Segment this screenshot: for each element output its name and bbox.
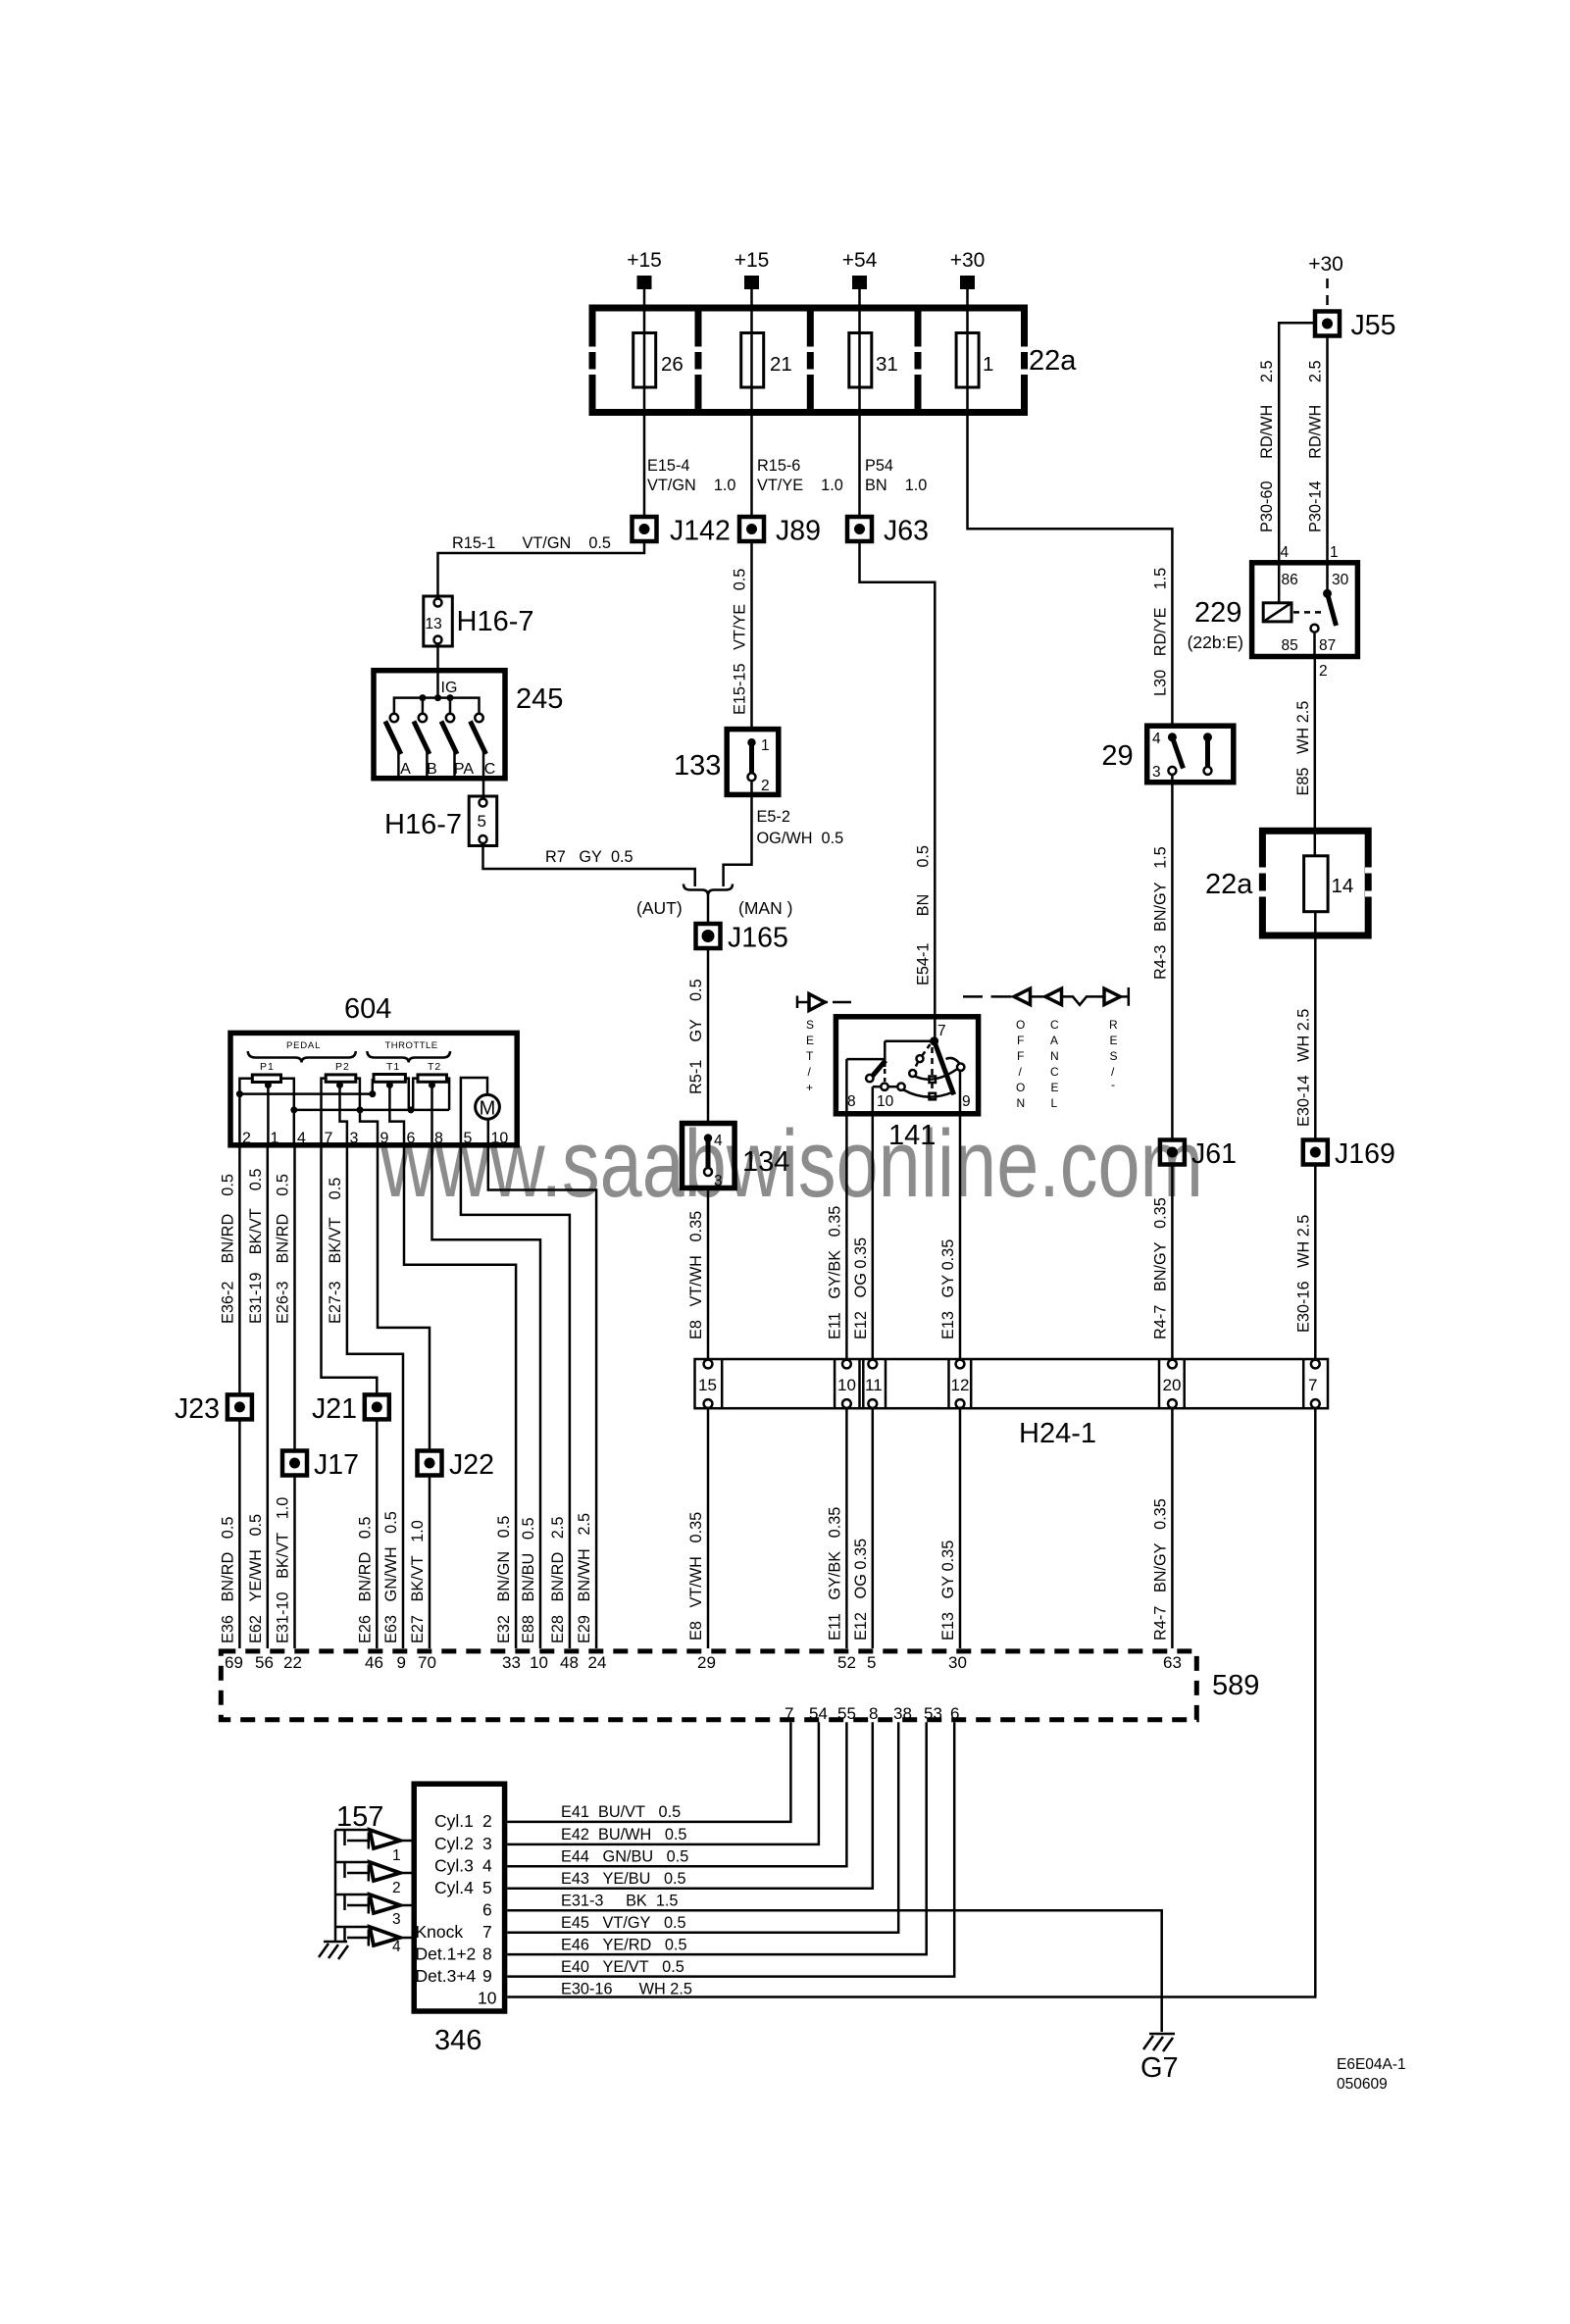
svg-text:10: 10 <box>530 1653 548 1672</box>
svg-text:E85 WH 2.5: E85 WH 2.5 <box>1294 701 1312 796</box>
svg-text:5: 5 <box>478 812 486 831</box>
wire E31-10 BK/VT 1.0 (J17 to 589 pin 22) <box>293 1478 296 1649</box>
svg-text:IG: IG <box>441 680 458 696</box>
svg-text:VT/YE 1.0: VT/YE 1.0 <box>757 477 843 494</box>
svg-text:E26 BN/RD 0.5: E26 BN/RD 0.5 <box>356 1517 374 1643</box>
bus 1 inside 604 <box>239 1092 374 1095</box>
ground G7 <box>1140 2034 1179 2084</box>
wire E27 BK/VT 1.0 (J22 to 589 pin 70) <box>429 1478 431 1649</box>
switch contact PA <box>446 714 454 722</box>
svg-text:+30: +30 <box>950 249 986 272</box>
connector J55 <box>1315 310 1395 341</box>
svg-text:J165: J165 <box>728 923 788 954</box>
svg-text:21: 21 <box>770 353 792 376</box>
wire E30-14 WH 2.5 from fuse 14 to J169 <box>1314 912 1317 1138</box>
svg-text:M: M <box>480 1098 496 1120</box>
connector J17 <box>282 1449 359 1481</box>
connector J63 <box>847 516 929 547</box>
fuse box 22a (top) <box>586 308 1077 413</box>
svg-text:BN 1.0: BN 1.0 <box>865 477 927 494</box>
svg-text:J23: J23 <box>175 1393 220 1425</box>
potentiometer T2 <box>418 1075 447 1082</box>
svg-text:3: 3 <box>392 1911 401 1928</box>
svg-text:E63 GN/WH 0.5: E63 GN/WH 0.5 <box>382 1511 400 1643</box>
svg-text:E62 YE/WH 0.5: E62 YE/WH 0.5 <box>247 1514 265 1643</box>
svg-text:PA: PA <box>454 761 474 778</box>
svg-text:J21: J21 <box>312 1393 357 1425</box>
svg-text:63: 63 <box>1163 1653 1182 1672</box>
svg-text:G7: G7 <box>1140 2052 1179 2084</box>
ignition module 346 <box>414 1784 504 2056</box>
svg-text:9: 9 <box>962 1093 971 1110</box>
svg-text:69: 69 <box>225 1653 243 1672</box>
svg-text:4: 4 <box>482 1856 492 1876</box>
svg-text:+54: +54 <box>842 249 878 272</box>
wire 589 pin 7 to 346 Cyl.1 <box>507 1722 790 1822</box>
svg-text:L: L <box>1051 1096 1058 1110</box>
svg-text:+: + <box>806 1081 813 1094</box>
svg-text:7: 7 <box>482 1922 492 1942</box>
wire P30-60 RD/WH 2.5 from J55 to relay 229 pin 4 <box>1279 323 1313 603</box>
svg-text:(AUT): (AUT) <box>636 898 683 918</box>
svg-text:+15: +15 <box>734 249 770 272</box>
svg-text:E5-2: E5-2 <box>757 808 790 826</box>
svg-text:E15-4: E15-4 <box>647 457 689 475</box>
svg-text:56: 56 <box>255 1653 274 1672</box>
svg-text:J55: J55 <box>1351 310 1396 341</box>
svg-text:9: 9 <box>397 1653 406 1672</box>
motor M <box>476 1094 500 1119</box>
wire +30 through fuse 1 to switch 29 <box>968 289 1173 726</box>
svg-text:85: 85 <box>1282 637 1298 654</box>
svg-text:141: 141 <box>888 1120 936 1151</box>
dashed actuator fan <box>931 1047 934 1075</box>
svg-text:E15-15 VT/YE 0.5: E15-15 VT/YE 0.5 <box>732 569 749 715</box>
svg-text:86: 86 <box>1282 572 1298 588</box>
svg-text:52: 52 <box>837 1653 856 1672</box>
svg-text:5: 5 <box>464 1131 473 1147</box>
wire E11 GY/BK 0.35 to 589 pin 52 <box>845 1408 848 1648</box>
pin 7 node <box>930 1036 938 1045</box>
svg-text:P2: P2 <box>335 1061 350 1073</box>
svg-text:R15-6: R15-6 <box>757 457 800 475</box>
svg-text:9: 9 <box>482 1966 492 1986</box>
connector J142 <box>633 516 731 547</box>
svg-text:8: 8 <box>847 1093 856 1110</box>
svg-text:22a: 22a <box>1205 869 1253 900</box>
svg-text:E31-3 BK 1.5: E31-3 BK 1.5 <box>561 1893 678 1910</box>
svg-text:A: A <box>400 761 411 778</box>
svg-text:6: 6 <box>950 1704 959 1723</box>
wire E30-16 WH 2.5 from J169 to H24-1 pin 7 <box>1314 1167 1317 1365</box>
svg-text:2: 2 <box>242 1131 251 1147</box>
svg-text:2: 2 <box>392 1880 401 1896</box>
fuse 31 <box>849 333 872 388</box>
svg-text:H24-1: H24-1 <box>1019 1418 1096 1449</box>
wire E85 WH 2.5 from relay pin 87 to fuse 14 <box>1314 659 1317 856</box>
wire E13 GY 0.35 from 141 pin 9 to H24-1 pin 12 <box>959 1071 962 1364</box>
svg-text:E88 BN/BU 0.5: E88 BN/BU 0.5 <box>520 1517 537 1643</box>
potentiometer T1 <box>374 1075 405 1083</box>
svg-text:PEDAL: PEDAL <box>286 1040 321 1051</box>
svg-text:9: 9 <box>380 1131 389 1147</box>
wire E31-3 BK 1.5 (346 pin 6 to ground G7) <box>507 1910 1161 2032</box>
svg-text:www.saabwisonline.com: www.saabwisonline.com <box>380 1110 1203 1217</box>
svg-text:C: C <box>1050 1065 1059 1079</box>
svg-text:J169: J169 <box>1335 1138 1395 1170</box>
ignition coils 157 <box>319 1801 412 1959</box>
svg-text:20: 20 <box>1163 1376 1182 1394</box>
svg-text:10: 10 <box>877 1093 894 1110</box>
svg-text:24: 24 <box>588 1653 607 1672</box>
svg-text:22a: 22a <box>1029 345 1077 377</box>
svg-text:346: 346 <box>434 2025 481 2056</box>
svg-text:87: 87 <box>1319 637 1336 654</box>
svg-text:38: 38 <box>893 1704 912 1723</box>
svg-text:E8 VT/WH 0.35: E8 VT/WH 0.35 <box>687 1211 705 1339</box>
svg-text:F: F <box>1017 1034 1024 1047</box>
svg-text:2: 2 <box>1319 663 1328 680</box>
wire E30-16 WH 2.5 from H24-1 pin 7 to 346 pin 10 <box>507 1408 1315 1997</box>
fuse 14 <box>1304 856 1329 912</box>
svg-text:E54-1 BN 0.5: E54-1 BN 0.5 <box>914 845 932 985</box>
svg-text:(22b:E): (22b:E) <box>1188 632 1243 652</box>
svg-text:133: 133 <box>674 750 721 782</box>
svg-text:8: 8 <box>434 1131 443 1147</box>
SET/+ vertical label <box>806 1018 814 1094</box>
switch contact C <box>475 714 482 722</box>
switch 133 <box>674 730 779 795</box>
svg-text:H16-7: H16-7 <box>457 606 534 637</box>
svg-text:6: 6 <box>482 1900 492 1920</box>
svg-text:14: 14 <box>1332 875 1354 897</box>
svg-text:10: 10 <box>837 1376 856 1394</box>
svg-text:E: E <box>1110 1034 1118 1047</box>
svg-text:Det.3+4: Det.3+4 <box>416 1966 477 1986</box>
potentiometer P1 <box>252 1075 280 1083</box>
wire E26 BN/RD 0.5 (J21 to 589 pin 46) <box>376 1421 379 1648</box>
svg-text:E31-10 BK/VT 1.0: E31-10 BK/VT 1.0 <box>275 1497 292 1643</box>
relay coil <box>1263 603 1291 622</box>
svg-text:R: R <box>1109 1018 1118 1032</box>
svg-text:Knock: Knock <box>416 1922 464 1942</box>
svg-text:E44 GN/BU 0.5: E44 GN/BU 0.5 <box>561 1848 688 1866</box>
svg-text:E31-19 BK/VT 0.5: E31-19 BK/VT 0.5 <box>247 1169 265 1324</box>
svg-text:THROTTLE: THROTTLE <box>385 1040 438 1051</box>
svg-text:T2: T2 <box>428 1061 441 1073</box>
svg-text:T: T <box>806 1049 814 1063</box>
svg-text:13: 13 <box>426 616 442 632</box>
svg-text:134: 134 <box>742 1146 789 1178</box>
fuse 26 <box>633 333 656 388</box>
svg-text:8: 8 <box>869 1704 878 1723</box>
svg-text:J142: J142 <box>670 516 731 547</box>
ground (157) <box>319 1942 348 1959</box>
svg-text:1: 1 <box>1330 544 1339 561</box>
svg-text:P54: P54 <box>865 457 893 475</box>
svg-text:R4-7 BN/GY 0.35: R4-7 BN/GY 0.35 <box>1151 1197 1169 1339</box>
wire R4-7 BN/GY 0.35 to 589 pin 63 <box>1171 1408 1174 1648</box>
wire 604 pin 6 to 589 pin 33 <box>404 1145 516 1648</box>
CANCEL vertical label <box>1050 1018 1059 1110</box>
svg-text:P30-60 RD/WH 2.5: P30-60 RD/WH 2.5 <box>1258 360 1276 532</box>
svg-text:10: 10 <box>491 1131 509 1147</box>
wire 604 pin 7 to J21 <box>322 1145 378 1392</box>
wire E13 GY 0.35 to 589 pin 30 <box>959 1408 962 1648</box>
svg-text:E36 BN/RD 0.5: E36 BN/RD 0.5 <box>219 1517 236 1643</box>
wire to J165 <box>707 895 710 922</box>
svg-text:J61: J61 <box>1191 1138 1237 1170</box>
connector H16-7 pin 13 <box>424 596 534 646</box>
pin 10 contacts <box>897 1084 904 1090</box>
wire 589 pin 54 to 346 Cyl.2 <box>507 1722 819 1844</box>
svg-text:4: 4 <box>1152 731 1161 747</box>
svg-text:S: S <box>1110 1049 1118 1063</box>
terminal +15 (fuse 26) <box>637 276 652 289</box>
svg-text:E45 VT/GY 0.5: E45 VT/GY 0.5 <box>561 1914 686 1932</box>
ignition switch 245 <box>374 671 563 779</box>
selector blade <box>935 1041 954 1095</box>
accelerator pedal sensor 604 <box>230 993 517 1147</box>
svg-text:E8 VT/WH 0.35: E8 VT/WH 0.35 <box>687 1512 705 1641</box>
svg-text:R4-7 BN/GY 0.35: R4-7 BN/GY 0.35 <box>1151 1498 1169 1641</box>
svg-text:1: 1 <box>761 737 770 754</box>
svg-text:N: N <box>1050 1049 1059 1063</box>
svg-text:O: O <box>1016 1018 1025 1032</box>
svg-text:Det.1+2: Det.1+2 <box>416 1945 477 1964</box>
svg-text:3: 3 <box>350 1131 359 1147</box>
terminal +30 <box>960 276 975 289</box>
svg-text:229: 229 <box>1194 597 1241 629</box>
svg-text:245: 245 <box>516 683 563 715</box>
svg-text:O: O <box>1016 1081 1025 1094</box>
wire E31-19 BK/VT 0.5 (604 pin 1) <box>267 1145 270 1648</box>
wire +15 to J142 through fuse 26 <box>643 289 646 515</box>
svg-text:E13 GY 0.35: E13 GY 0.35 <box>939 1541 957 1641</box>
brace throttle <box>367 1051 450 1063</box>
svg-text:R15-1 VT/GN 0.5: R15-1 VT/GN 0.5 <box>452 534 611 552</box>
svg-text:H16-7: H16-7 <box>384 809 462 840</box>
svg-text:B: B <box>427 761 437 778</box>
svg-text:050609: 050609 <box>1337 2076 1388 2093</box>
svg-text:157: 157 <box>336 1801 383 1833</box>
svg-text:P30-14 RD/WH 2.5: P30-14 RD/WH 2.5 <box>1307 360 1325 532</box>
coil symbol 1 <box>335 1830 412 1864</box>
wire 589 pin 55 to 346 Cyl.3 <box>507 1722 846 1866</box>
svg-text:E46 YE/RD 0.5: E46 YE/RD 0.5 <box>561 1937 687 1954</box>
svg-text:+15: +15 <box>627 249 662 272</box>
svg-text:R4-3 BN/GY 1.5: R4-3 BN/GY 1.5 <box>1151 846 1169 980</box>
svg-text:10: 10 <box>478 1989 497 2008</box>
svg-text:3: 3 <box>1152 764 1161 781</box>
svg-text:E29 BN/WH 2.5: E29 BN/WH 2.5 <box>576 1513 593 1643</box>
svg-text:P1: P1 <box>260 1061 275 1073</box>
svg-text:2: 2 <box>761 778 770 794</box>
svg-text:J63: J63 <box>884 516 929 547</box>
wire 245 C to H16-7 pin 5 <box>482 779 485 796</box>
wire 604 pin 8 to 589 pin 10 <box>432 1145 541 1648</box>
coil symbol 2 <box>335 1862 412 1896</box>
svg-text:11: 11 <box>865 1376 883 1394</box>
terminal +54 <box>852 276 867 289</box>
wire 604 pin 5 to 589 pin 48 <box>461 1145 570 1648</box>
svg-text:7: 7 <box>937 1023 946 1039</box>
wire E36-2 BN/RD 0.5 (604 pin 2 to J23) <box>238 1145 241 1392</box>
wire E12 OG 0.35 to 589 pin 5 <box>872 1408 875 1648</box>
pin 9 tap <box>360 1110 378 1145</box>
svg-text:70: 70 <box>418 1653 436 1672</box>
svg-text:VT/GN 1.0: VT/GN 1.0 <box>647 477 735 494</box>
svg-text:Cyl.4: Cyl.4 <box>434 1878 474 1897</box>
svg-text:55: 55 <box>837 1704 856 1723</box>
svg-text:5: 5 <box>867 1653 876 1672</box>
switch contact A <box>390 714 398 722</box>
wire E8 VT/WH 0.35 from 134 to H24-1 pin 15 <box>707 1187 710 1364</box>
connector J23 <box>175 1393 252 1425</box>
cruise control switch 141 <box>836 1017 978 1151</box>
svg-text:E30-16 WH 2.5: E30-16 WH 2.5 <box>561 1981 692 1998</box>
wire R7 GY 0.5 <box>483 846 695 887</box>
wire E8 VT/WH 0.35 from H24-1 to 589 pin 29 <box>707 1408 710 1648</box>
svg-text:E13 GY 0.35: E13 GY 0.35 <box>939 1239 957 1339</box>
wire E12 OG 0.35 from 141 pin 10 to H24-1 pin 11 <box>872 1086 875 1364</box>
svg-text:E30-14 WH 2.5: E30-14 WH 2.5 <box>1294 1009 1312 1127</box>
wire 589 pin 53 to 346 pin 8 <box>507 1722 926 1954</box>
connector J169 <box>1303 1138 1395 1170</box>
svg-text:J17: J17 <box>314 1449 359 1481</box>
wire IG <box>436 673 439 698</box>
svg-text:E40 YE/VT 0.5: E40 YE/VT 0.5 <box>561 1958 684 1976</box>
svg-text:12: 12 <box>951 1376 970 1394</box>
svg-text:7: 7 <box>1308 1376 1317 1394</box>
fuse 1 <box>956 333 979 388</box>
svg-text:33: 33 <box>502 1653 521 1672</box>
connector J61 <box>1160 1138 1237 1170</box>
wire labels at 346 <box>561 1803 692 1998</box>
svg-text:46: 46 <box>365 1653 383 1672</box>
wire 604 pin 9 to J22 <box>378 1145 430 1449</box>
wire R4-7 BN/GY 0.35 from J61 to H24-1 pin 20 <box>1171 1167 1174 1365</box>
potentiometer P2 <box>326 1075 356 1082</box>
wire E15-15 VT/YE 0.5 from J89 to 133 <box>750 543 753 731</box>
svg-text:30: 30 <box>948 1653 967 1672</box>
switch 134 <box>683 1124 790 1190</box>
relay switch <box>1323 589 1332 598</box>
wire R15-1 VT/GN 0.5 from J142 to H16-7 <box>438 543 645 596</box>
svg-text:1: 1 <box>983 353 993 376</box>
svg-text:15: 15 <box>698 1376 717 1394</box>
wire R5-1 GY 0.5 from J165 to 134 <box>707 950 710 1124</box>
pin numbers of 604 <box>242 1131 508 1147</box>
svg-text:53: 53 <box>924 1704 942 1723</box>
terminal +15 (fuse 21) <box>744 276 759 289</box>
svg-text:-: - <box>1111 1078 1115 1091</box>
actuator dashed link <box>1293 611 1322 614</box>
svg-text:E36-2 BN/RD 0.5: E36-2 BN/RD 0.5 <box>219 1174 236 1324</box>
svg-text:Cyl.3: Cyl.3 <box>434 1856 474 1876</box>
svg-text:E11 GY/BK 0.35: E11 GY/BK 0.35 <box>826 1507 843 1641</box>
AUT/MAN selector symbol <box>636 884 792 919</box>
svg-text:2: 2 <box>482 1811 492 1831</box>
svg-text:6: 6 <box>407 1131 416 1147</box>
svg-text:Cyl.2: Cyl.2 <box>434 1834 474 1853</box>
svg-text:22: 22 <box>283 1653 302 1672</box>
wire 133 pin 2 to MAN <box>724 781 752 886</box>
svg-text:589: 589 <box>1212 1670 1259 1701</box>
svg-text:OG/WH 0.5: OG/WH 0.5 <box>757 830 844 847</box>
svg-text:54: 54 <box>809 1704 828 1723</box>
svg-text:C: C <box>484 761 496 778</box>
svg-text:7: 7 <box>325 1131 333 1147</box>
pin 8 contact <box>846 1058 886 1061</box>
fuse 21 <box>741 333 764 388</box>
coil symbol 4 <box>335 1927 412 1955</box>
wire P30-14 RD/WH 2.5 from J55 to relay 229 pin 1 <box>1326 338 1329 594</box>
svg-text:3: 3 <box>714 1173 723 1189</box>
switch contact B <box>419 714 427 722</box>
svg-text:29: 29 <box>697 1653 716 1672</box>
OFF/ON vertical label <box>1016 1018 1025 1110</box>
svg-text:J22: J22 <box>449 1449 494 1481</box>
wire E26-3 BN/RD 0.5 (604 pin 4 to J17) <box>293 1145 296 1449</box>
svg-text:E42 BU/WH 0.5: E42 BU/WH 0.5 <box>561 1826 687 1844</box>
connector J165 <box>696 923 788 954</box>
wire +15 to J89 through fuse 21 <box>750 289 753 515</box>
svg-text:1: 1 <box>271 1131 279 1147</box>
svg-text:8: 8 <box>482 1945 492 1964</box>
svg-text:30: 30 <box>1332 572 1349 588</box>
svg-text:Cyl.1: Cyl.1 <box>434 1811 474 1831</box>
contact arcs <box>915 1070 957 1080</box>
svg-text:A: A <box>1050 1034 1058 1047</box>
connector H16-7 pin 5 <box>384 796 497 846</box>
bus inside 245 <box>394 698 480 714</box>
svg-text:E26-3 BN/RD 0.5: E26-3 BN/RD 0.5 <box>275 1174 292 1324</box>
wire 589 pin 8 to 346 Cyl.4 <box>507 1722 872 1889</box>
wire E54-1 BN 0.5 from J63 to 141 pin 7 <box>860 543 936 1041</box>
svg-text:E: E <box>1051 1081 1059 1094</box>
RES/- vertical label <box>1109 1018 1118 1091</box>
coil symbol 3 <box>335 1895 412 1928</box>
svg-text:L30 RD/YE 1.5: L30 RD/YE 1.5 <box>1151 568 1169 696</box>
svg-text:(MAN ): (MAN ) <box>738 898 792 918</box>
svg-text:R5-1 GY 0.5: R5-1 GY 0.5 <box>687 979 705 1094</box>
svg-text:E6E04A-1: E6E04A-1 <box>1337 2056 1406 2073</box>
brace pedal <box>248 1051 356 1063</box>
svg-text:E11 GY/BK 0.35: E11 GY/BK 0.35 <box>826 1206 843 1339</box>
SET/+ arrow <box>797 992 851 1011</box>
svg-text:N: N <box>1017 1096 1026 1110</box>
wire 589 pin 38 to 346 pin 7 <box>507 1722 898 1932</box>
wire E11 GY/BK 0.35 from 141 pin 8 to H24-1 pin 10 <box>845 1059 848 1364</box>
svg-text:E32 BN/GN 0.5: E32 BN/GN 0.5 <box>495 1516 513 1643</box>
svg-text:E: E <box>806 1034 814 1047</box>
connector J22 <box>418 1449 494 1481</box>
connector J21 <box>312 1393 389 1425</box>
wire E36 BN/RD 0.5 (J23 to 589 pin 69) <box>238 1421 241 1648</box>
svg-text:3: 3 <box>482 1834 492 1853</box>
svg-text:F: F <box>1017 1049 1024 1063</box>
pin 9 contact <box>957 1064 964 1071</box>
svg-text:4: 4 <box>714 1133 723 1149</box>
ECU 589 (dashed box) <box>221 1651 1259 1723</box>
svg-text:E43 YE/BU 0.5: E43 YE/BU 0.5 <box>561 1870 686 1888</box>
fuse holder 22a (fuse 14) <box>1205 831 1378 935</box>
svg-text:4: 4 <box>392 1939 401 1955</box>
svg-text:E12 OG 0.35: E12 OG 0.35 <box>852 1539 870 1641</box>
wire 604 pin 10 to 589 pin 24 <box>488 1145 596 1648</box>
svg-text:29: 29 <box>1101 740 1133 772</box>
